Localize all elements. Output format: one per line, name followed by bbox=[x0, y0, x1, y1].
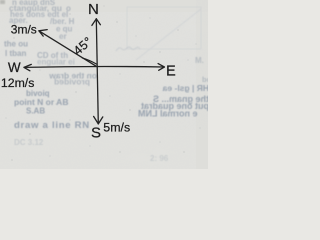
corner mark bbox=[0, 0, 5, 4]
svg-text:HR | gsl- ea: HR | gsl- ea bbox=[162, 83, 208, 93]
svg-text:E: E bbox=[166, 63, 176, 79]
speckle noise bbox=[6, 6, 201, 161]
ghost bleed-through text layer bbox=[4, 0, 211, 163]
svg-text:DC 3.12: DC 3.12 bbox=[14, 138, 44, 147]
vector 3m/s diagonal bbox=[39, 31, 97, 67]
svg-text:5m/s: 5m/s bbox=[103, 121, 130, 135]
top-left ghost lines bbox=[9, 0, 75, 41]
svg-text:12m/s: 12m/s bbox=[1, 76, 35, 90]
svg-text:er: er bbox=[59, 32, 67, 41]
svg-text:2: 96: 2: 96 bbox=[150, 154, 169, 163]
N arrowhead bbox=[92, 19, 101, 26]
angle arc bbox=[82, 58, 96, 64]
wire: W-E horizontal axis bbox=[24, 65, 164, 68]
svg-text:provided: provided bbox=[54, 77, 90, 87]
W arrowhead bbox=[24, 64, 31, 70]
E arrowhead bbox=[158, 64, 164, 71]
label 45 degrees (tilted) bbox=[71, 34, 95, 58]
wire: N-S vertical axis bbox=[96, 19, 98, 124]
paper background bbox=[0, 0, 208, 169]
faint handwriting squiggle mid-right bbox=[116, 47, 140, 51]
svg-text:l tban: l tban bbox=[5, 49, 26, 58]
svg-text:draw a line RN: draw a line RN bbox=[14, 120, 90, 131]
svg-text:3m/s: 3m/s bbox=[11, 23, 37, 37]
svg-text:S.AB: S.AB bbox=[26, 107, 45, 116]
svg-text:N: N bbox=[88, 1, 99, 18]
svg-text:point N or AB: point N or AB bbox=[14, 97, 68, 107]
main diagram (scan-dark ink) bbox=[24, 19, 164, 124]
svg-text:S: S bbox=[91, 125, 101, 142]
svg-text:the ou: the ou bbox=[4, 40, 28, 49]
svg-text:e normal LNM: e normal LNM bbox=[138, 108, 198, 118]
svg-text:engular ei: engular ei bbox=[37, 58, 75, 67]
svg-text:W: W bbox=[8, 60, 21, 75]
svg-text:M.: M. bbox=[195, 56, 204, 65]
S arrowhead bbox=[94, 116, 103, 124]
ghost rectangle top right bbox=[127, 7, 201, 60]
diagonal arrowhead bbox=[39, 30, 47, 36]
